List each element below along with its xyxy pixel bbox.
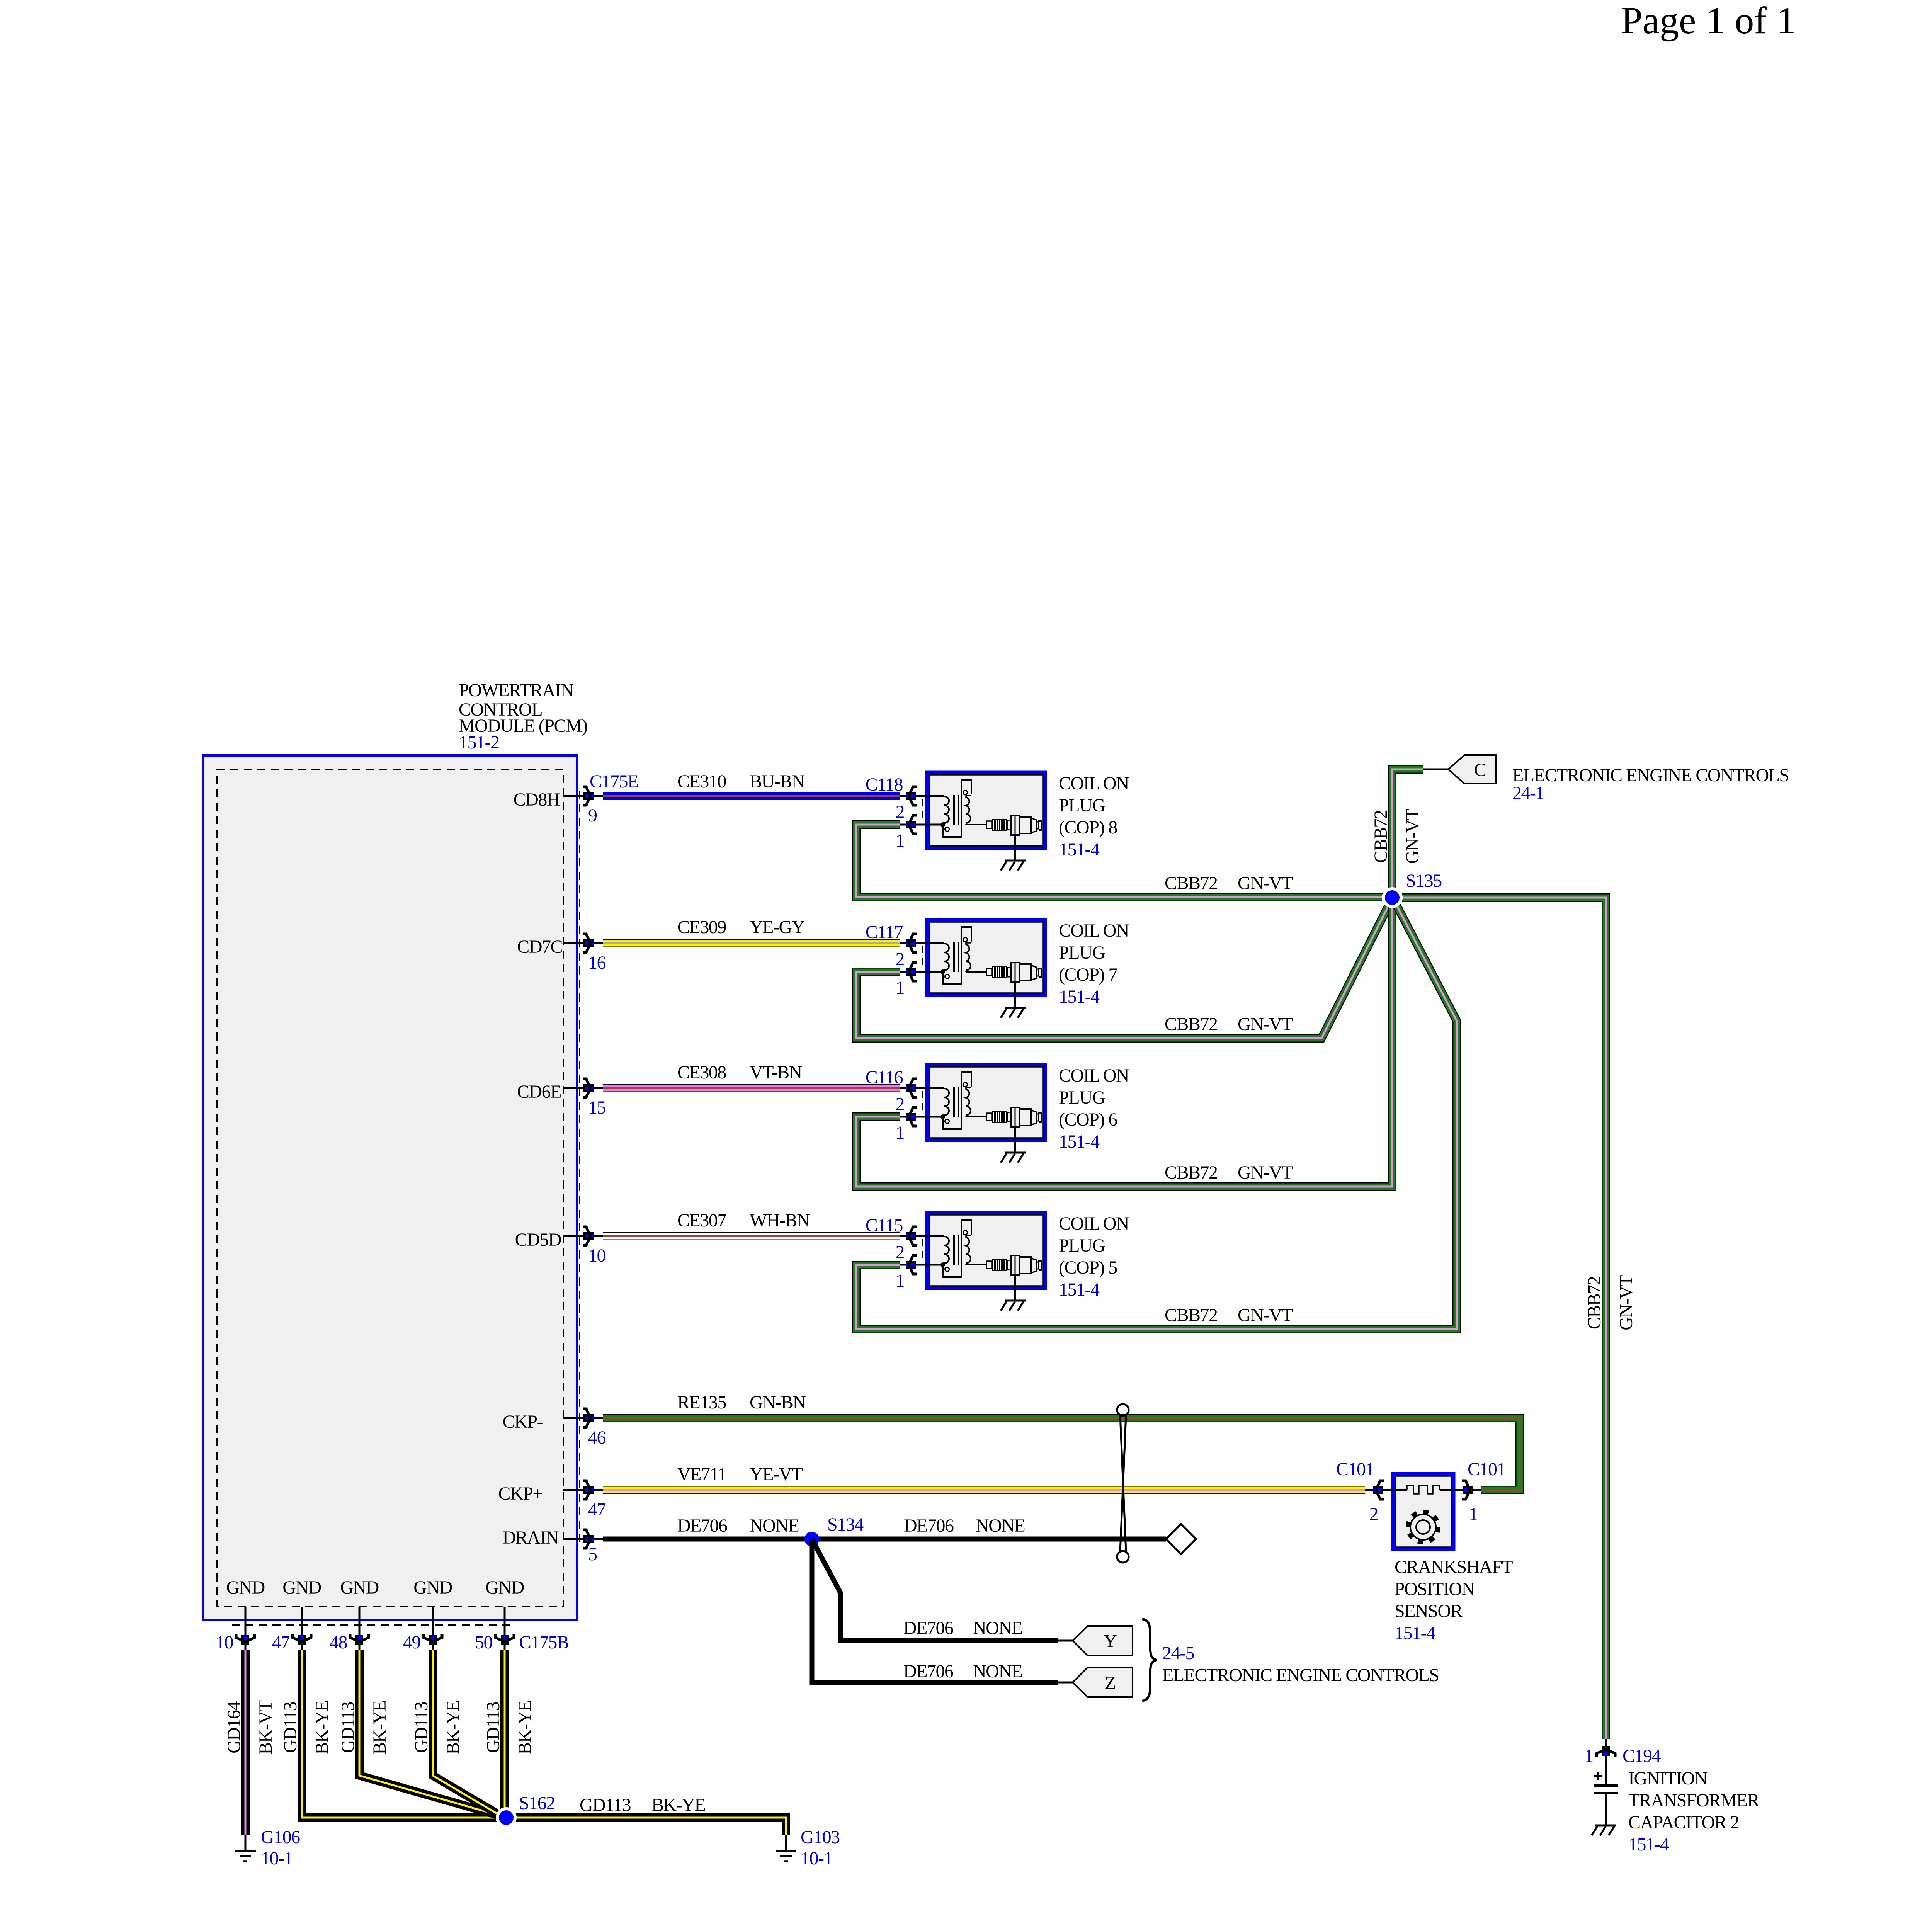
COP7 pin 1 lead [900, 971, 944, 973]
COP8 terminal circle lower [945, 827, 949, 832]
COP7 terminal circle lower [945, 975, 949, 979]
COP6 spark plug [986, 1113, 992, 1121]
svg-text:Page 1 of 1: Page 1 of 1 [1621, 0, 1796, 42]
COP5 spark plug [986, 1261, 992, 1269]
svg-text:GD164: GD164 [224, 1701, 244, 1753]
svg-text:1: 1 [896, 1270, 905, 1291]
svg-text:10-1: 10-1 [801, 1848, 832, 1869]
PCM pin DRAIN arrow [583, 1530, 594, 1548]
COP8 secondary top link [966, 796, 971, 798]
coil-on-plug COP6 box [927, 1065, 1045, 1140]
svg-text:S162: S162 [519, 1793, 555, 1813]
svg-text:GND: GND [340, 1577, 379, 1598]
splice S162 [496, 1807, 517, 1828]
svg-text:NONE: NONE [973, 1618, 1022, 1638]
svg-text:10: 10 [216, 1632, 233, 1653]
svg-text:1: 1 [896, 830, 905, 851]
svg-text:49: 49 [403, 1632, 421, 1653]
svg-text:S134: S134 [827, 1514, 864, 1535]
COP8 ground wire [1014, 835, 1016, 861]
coil-on-plug COP7 box [927, 920, 1045, 995]
svg-text:IGNITION: IGNITION [1628, 1768, 1708, 1789]
svg-text:1: 1 [896, 1122, 905, 1143]
svg-text:C194: C194 [1622, 1746, 1661, 1766]
COP7 pin 2 lead [900, 942, 944, 944]
svg-text:CKP+: CKP+ [498, 1483, 543, 1504]
svg-text:CBB72: CBB72 [1371, 810, 1391, 863]
svg-text:1: 1 [1585, 1746, 1594, 1766]
svg-text:POWERTRAIN: POWERTRAIN [459, 680, 574, 701]
svg-text:9: 9 [588, 805, 597, 826]
svg-text:C116: C116 [866, 1067, 903, 1088]
svg-text:WH-BN: WH-BN [750, 1210, 810, 1231]
svg-text:47: 47 [272, 1632, 290, 1653]
COP5 connector dashed line [922, 1239, 923, 1262]
COP7 connector dashed line [922, 946, 923, 969]
PCM pin CKP+ arrow [583, 1481, 594, 1499]
wire CE310 BU-BN [603, 792, 900, 800]
svg-text:CBB72: CBB72 [1165, 1305, 1218, 1325]
wire CBB72 from S135 up to connector C flag [1392, 769, 1423, 898]
svg-text:CD5D: CD5D [515, 1230, 561, 1250]
COP8 transformer primary winding [944, 796, 949, 823]
crankshaft position sensor box [1393, 1474, 1454, 1549]
svg-text:151-2: 151-2 [459, 732, 499, 753]
svg-text:GD113: GD113 [483, 1702, 503, 1753]
svg-text:24-1: 24-1 [1512, 783, 1544, 803]
PCM pin CD7C arrow [583, 934, 594, 952]
PCM pin CD7C lead [563, 942, 603, 944]
svg-text:C118: C118 [866, 774, 903, 795]
wire VE711 YE-VT [603, 1486, 1365, 1494]
COP6 transformer core [953, 1087, 955, 1117]
svg-text:C175B: C175B [519, 1632, 569, 1653]
COP7 pin 1 arrow [906, 963, 917, 981]
COP7 internal ground path [943, 927, 971, 984]
svg-text:CE310: CE310 [677, 771, 726, 792]
COP8 transformer core [953, 795, 955, 825]
svg-text:CE309: CE309 [677, 917, 726, 937]
COP6 pin 2 lead [900, 1087, 944, 1089]
svg-text:S135: S135 [1406, 871, 1442, 891]
COP7 pin 2 arrow [906, 934, 917, 952]
COP6 pin 1 arrow [906, 1107, 917, 1126]
svg-text:1: 1 [896, 978, 905, 998]
wire CE309 YE-GY [603, 939, 900, 947]
wire GD113 BK-YE pin50 [500, 1650, 509, 1818]
svg-text:ELECTRONIC ENGINE CONTROLS: ELECTRONIC ENGINE CONTROLS [1512, 765, 1789, 786]
sensor pin 1 arrow [1462, 1481, 1473, 1499]
COP6 secondary-to-plug wire [965, 1116, 967, 1117]
connector C175E dashed line [579, 791, 580, 1542]
svg-text:GN-BN: GN-BN [750, 1392, 806, 1413]
svg-text:1: 1 [1469, 1504, 1478, 1524]
svg-text:BK-YE: BK-YE [651, 1795, 705, 1815]
PCM GND pin 10 lead [245, 1607, 247, 1650]
flag connector Y [1073, 1626, 1133, 1656]
COP5 transformer primary winding [944, 1236, 949, 1263]
PCM GND pin 50 lead [504, 1607, 506, 1650]
wire CE308 VT-BN [603, 1084, 900, 1092]
COP5 primary-bottom junction dot [940, 1262, 945, 1267]
svg-text:PLUG: PLUG [1059, 1235, 1105, 1256]
svg-text:151-4: 151-4 [1059, 986, 1100, 1007]
svg-text:YE-VT: YE-VT [750, 1464, 803, 1485]
svg-text:GN-VT: GN-VT [1238, 1305, 1293, 1325]
COP6 primary-bottom junction dot [940, 1114, 945, 1119]
PCM pin CD5D arrow [583, 1227, 594, 1245]
COP6 ground [1001, 1153, 1026, 1163]
COP7 transformer secondary winding [966, 944, 971, 970]
wire CBB72 loop from COP7 pin1 to S135 [856, 898, 1393, 1038]
splice S135 [1382, 887, 1403, 908]
svg-text:C117: C117 [866, 922, 903, 942]
PCM GND pin 50 arrow [495, 1634, 514, 1645]
svg-text:2: 2 [896, 1094, 905, 1114]
svg-text:G106: G106 [261, 1827, 300, 1847]
COP6 pin 1 lead [900, 1116, 944, 1118]
flag connector Z [1073, 1667, 1133, 1697]
COP8 secondary-to-plug wire [965, 824, 967, 825]
svg-text:151-4: 151-4 [1628, 1834, 1669, 1855]
svg-text:GD113: GD113 [411, 1702, 432, 1753]
sensor pin 2 arrow [1373, 1481, 1384, 1499]
svg-text:24-5: 24-5 [1162, 1643, 1194, 1663]
svg-text:C175E: C175E [590, 771, 638, 792]
svg-text:GN-VT: GN-VT [1238, 873, 1293, 893]
svg-text:151-4: 151-4 [1059, 839, 1100, 860]
svg-text:CD8H: CD8H [514, 789, 560, 810]
wire GD113 BK-YE pin48 [359, 1650, 502, 1816]
svg-text:NONE: NONE [976, 1515, 1025, 1536]
wire CE307 WH-BN [603, 1232, 900, 1240]
svg-text:2: 2 [896, 949, 905, 969]
COP8 spark plug [986, 821, 992, 828]
svg-text:DE706: DE706 [904, 1515, 954, 1536]
wire CBB72 loop from COP6 pin1 to S135 [856, 898, 1392, 1187]
svg-text:48: 48 [330, 1632, 347, 1653]
wire GD113 BK-YE pin49 [433, 1650, 503, 1817]
COP7 primary-bottom junction dot [940, 969, 945, 974]
COP7 spark plug [986, 968, 992, 976]
wire DE706 drain [603, 1537, 1166, 1542]
COP8 terminal circle upper [963, 791, 968, 795]
svg-text:2: 2 [1369, 1504, 1378, 1524]
PCM pin CD6E lead [563, 1087, 603, 1089]
svg-text:GND: GND [226, 1577, 265, 1598]
svg-text:47: 47 [588, 1499, 606, 1520]
COP8 ground [1001, 861, 1026, 871]
svg-text:C101: C101 [1468, 1459, 1505, 1480]
PCM pin CD8H lead [563, 795, 603, 797]
connector C194 lead [1605, 1739, 1607, 1786]
PCM GND pin 47 arrow [293, 1634, 311, 1645]
capacitor C194 polarity plus [1594, 1775, 1602, 1777]
PCM GND pin 48 lead [359, 1607, 361, 1650]
COP5 transformer secondary winding [966, 1237, 971, 1263]
splice S134 [804, 1532, 819, 1546]
svg-text:10-1: 10-1 [261, 1848, 293, 1869]
COP6 terminal circle lower [945, 1119, 949, 1124]
svg-text:GND: GND [282, 1577, 321, 1598]
svg-text:NONE: NONE [973, 1661, 1022, 1682]
wire GD113 BK-YE from S162 to G103 [506, 1818, 786, 1835]
COP6 connector dashed line [922, 1091, 923, 1114]
sensor pin 2 lead [1365, 1489, 1407, 1491]
svg-text:GN-VT: GN-VT [1238, 1162, 1293, 1183]
svg-text:C115: C115 [866, 1215, 903, 1236]
wire DE706 branch to Y [812, 1539, 1058, 1641]
wire GD113 BK-YE pin47 [302, 1650, 499, 1818]
PCM box [203, 755, 577, 1620]
svg-text:CE308: CE308 [677, 1062, 726, 1083]
COP8 pin 1 lead [900, 824, 944, 826]
svg-text:DE706: DE706 [903, 1661, 953, 1682]
capacitor ground [1592, 1825, 1616, 1835]
COP8 connector dashed line [922, 799, 923, 821]
COP7 ground wire [1014, 982, 1016, 1008]
COP7 ground [1001, 1008, 1026, 1018]
COP5 pin 1 arrow [906, 1255, 917, 1274]
svg-text:VE711: VE711 [677, 1464, 726, 1485]
svg-text:GD113: GD113 [338, 1702, 358, 1753]
svg-text:TRANSFORMER: TRANSFORMER [1628, 1790, 1760, 1811]
PCM pin CKP+ lead [563, 1489, 603, 1491]
flag Z lead [1058, 1682, 1073, 1684]
svg-text:GD113: GD113 [580, 1795, 631, 1815]
capacitor ignition transformer capacitor 2 [1594, 1784, 1618, 1787]
PCM pin CD5D lead [563, 1235, 603, 1237]
PCM inner dashed box [217, 770, 563, 1607]
svg-text:151-4: 151-4 [1059, 1279, 1100, 1300]
svg-text:GN-VT: GN-VT [1402, 809, 1423, 864]
sensor reluctor castellation [1407, 1486, 1440, 1494]
svg-text:BK-YE: BK-YE [443, 1701, 463, 1754]
COP5 internal ground path [943, 1220, 971, 1277]
connector C194 arrow [1597, 1746, 1615, 1757]
svg-text:(COP) 6: (COP) 6 [1059, 1109, 1117, 1130]
wire CBB72 from S135 right and down to C194 [1393, 898, 1606, 1739]
PCM pin CD8H arrow [583, 787, 594, 805]
ground G106 [245, 1835, 247, 1850]
COP8 primary-bottom junction dot [940, 822, 945, 827]
PCM GND pin 49 arrow [423, 1634, 442, 1645]
wire CBB72 loop from COP5 pin1 to S135 [856, 898, 1457, 1329]
COP7 secondary top link [966, 943, 971, 945]
COP8 pin 2 lead [900, 795, 944, 797]
svg-text:CBB72: CBB72 [1165, 1162, 1218, 1183]
svg-text:COIL ON: COIL ON [1059, 1213, 1129, 1234]
COP8 pin 1 arrow [906, 815, 917, 834]
PCM GND pin 48 arrow [350, 1634, 369, 1645]
svg-text:PLUG: PLUG [1059, 942, 1105, 963]
svg-text:Y: Y [1104, 1631, 1117, 1651]
svg-text:DE706: DE706 [903, 1618, 953, 1638]
svg-text:15: 15 [588, 1097, 606, 1118]
coil-on-plug COP5 box [927, 1213, 1045, 1288]
flag connector C lead [1423, 769, 1448, 770]
svg-text:CD6E: CD6E [517, 1082, 561, 1102]
svg-text:(COP) 8: (COP) 8 [1059, 817, 1117, 838]
COP6 transformer secondary winding [966, 1089, 971, 1115]
twisted pair symbol [1117, 1404, 1129, 1416]
svg-text:(COP) 5: (COP) 5 [1059, 1257, 1117, 1278]
svg-text:CBB72: CBB72 [1165, 873, 1218, 893]
COP6 pin 2 arrow [906, 1079, 917, 1097]
svg-text:COIL ON: COIL ON [1059, 920, 1129, 941]
COP5 pin 2 arrow [906, 1227, 917, 1245]
svg-text:GND: GND [485, 1577, 524, 1598]
svg-text:50: 50 [475, 1632, 493, 1653]
svg-text:C101: C101 [1336, 1459, 1374, 1480]
ground G103 [785, 1835, 787, 1850]
COP5 terminal circle upper [963, 1231, 968, 1235]
PCM GND pin 10 arrow [236, 1634, 255, 1645]
svg-text:SENSOR: SENSOR [1395, 1601, 1463, 1621]
COP5 secondary top link [966, 1236, 971, 1238]
COP5 transformer core [953, 1235, 955, 1265]
svg-text:151-4: 151-4 [1395, 1623, 1435, 1643]
PCM pin CKP- arrow [583, 1409, 594, 1427]
svg-text:CE307: CE307 [677, 1210, 726, 1231]
flag connector C [1448, 755, 1496, 784]
COP5 ground wire [1014, 1275, 1016, 1301]
COP6 internal ground path [943, 1072, 971, 1129]
svg-text:CAPACITOR 2: CAPACITOR 2 [1628, 1812, 1739, 1833]
sensor pin 1 lead [1440, 1489, 1481, 1491]
COP6 secondary top link [966, 1088, 971, 1090]
COP5 secondary-to-plug wire [965, 1264, 967, 1265]
svg-text:GND: GND [413, 1577, 452, 1598]
COP6 transformer primary winding [944, 1088, 949, 1115]
COP7 transformer core [953, 942, 955, 972]
svg-text:PLUG: PLUG [1059, 1087, 1105, 1108]
drain shield diamond terminator [1166, 1524, 1196, 1554]
svg-text:VT-BN: VT-BN [750, 1062, 802, 1083]
COP7 transformer primary winding [944, 944, 949, 970]
brace [1142, 1619, 1157, 1701]
svg-text:G103: G103 [801, 1827, 840, 1847]
svg-text:2: 2 [896, 802, 905, 822]
wire DE706 branch to Z [812, 1539, 1058, 1682]
svg-text:RE135: RE135 [677, 1392, 726, 1413]
wire GD164 BK-VT to G106 [241, 1650, 250, 1835]
svg-text:PLUG: PLUG [1059, 795, 1105, 816]
svg-text:16: 16 [588, 952, 606, 973]
svg-text:GN-VT: GN-VT [1238, 1014, 1293, 1034]
svg-text:C: C [1474, 760, 1486, 780]
svg-text:Z: Z [1105, 1673, 1116, 1693]
COP5 terminal circle lower [945, 1267, 949, 1272]
PCM pin DRAIN lead [563, 1538, 603, 1540]
svg-text:BK-YE: BK-YE [312, 1701, 332, 1754]
svg-text:COIL ON: COIL ON [1059, 1065, 1129, 1086]
svg-text:GD113: GD113 [280, 1702, 301, 1753]
svg-text:POSITION: POSITION [1395, 1579, 1475, 1599]
svg-text:10: 10 [588, 1245, 606, 1266]
COP8 internal ground path [943, 780, 971, 837]
svg-text:CRANKSHAFT: CRANKSHAFT [1395, 1557, 1513, 1577]
svg-text:BU-BN: BU-BN [750, 771, 805, 792]
svg-text:CBB72: CBB72 [1165, 1014, 1218, 1034]
svg-text:GN-VT: GN-VT [1616, 1275, 1636, 1330]
svg-text:151-4: 151-4 [1059, 1131, 1100, 1152]
svg-text:5: 5 [588, 1544, 597, 1565]
svg-text:BK-YE: BK-YE [515, 1701, 535, 1754]
svg-text:46: 46 [588, 1427, 606, 1448]
COP6 terminal circle upper [963, 1083, 968, 1087]
connector C175B dashed line [232, 1624, 510, 1626]
COP7 terminal circle upper [963, 938, 968, 942]
svg-text:CD7C: CD7C [517, 937, 562, 957]
COP5 pin 1 lead [900, 1264, 944, 1266]
svg-text:COIL ON: COIL ON [1059, 773, 1129, 794]
PCM pin CD6E arrow [583, 1079, 594, 1097]
svg-text:ELECTRONIC ENGINE CONTROLS: ELECTRONIC ENGINE CONTROLS [1162, 1665, 1439, 1685]
svg-text:CBB72: CBB72 [1584, 1277, 1605, 1330]
COP5 pin 2 lead [900, 1235, 944, 1237]
svg-text:BK-VT: BK-VT [255, 1700, 276, 1754]
svg-text:NONE: NONE [750, 1515, 799, 1536]
svg-text:BK-YE: BK-YE [369, 1701, 390, 1754]
wire RE135 GN-BN [603, 1418, 1520, 1490]
svg-text:DE706: DE706 [677, 1515, 727, 1536]
wire CBB72 loop from COP8 pin1 to S135 [856, 825, 1393, 897]
svg-text:YE-GY: YE-GY [750, 917, 805, 937]
svg-text:CKP-: CKP- [503, 1412, 543, 1432]
svg-text:2: 2 [896, 1242, 905, 1262]
COP8 transformer secondary winding [966, 797, 971, 823]
coil-on-plug COP8 box [927, 772, 1045, 848]
PCM GND pin 47 lead [301, 1607, 303, 1650]
COP5 ground [1001, 1301, 1026, 1311]
flag Y lead [1058, 1640, 1073, 1642]
svg-text:(COP) 7: (COP) 7 [1059, 964, 1117, 985]
COP7 secondary-to-plug wire [965, 971, 967, 972]
svg-text:DRAIN: DRAIN [503, 1527, 559, 1548]
PCM GND pin 49 lead [432, 1607, 434, 1650]
PCM pin CKP- lead [563, 1417, 603, 1419]
COP6 ground wire [1014, 1127, 1016, 1153]
sensor gear [1408, 1512, 1439, 1543]
COP8 pin 2 arrow [906, 787, 917, 805]
